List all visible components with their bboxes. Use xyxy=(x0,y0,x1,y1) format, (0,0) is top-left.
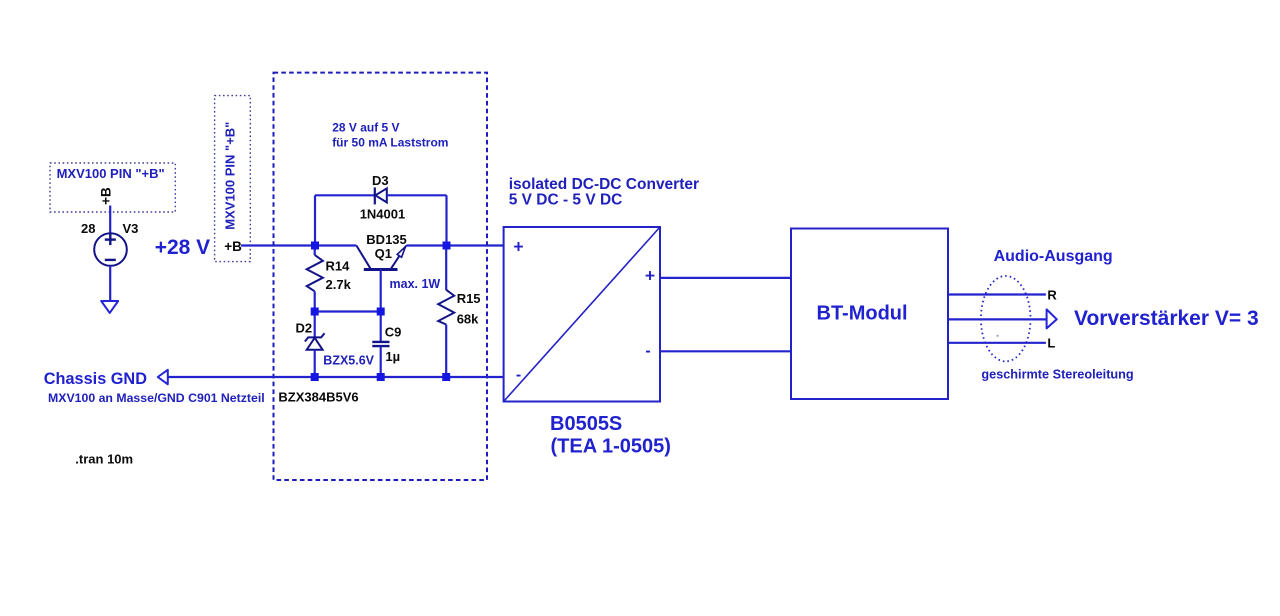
svg-text:R15: R15 xyxy=(457,291,481,306)
ground xyxy=(101,301,118,313)
svg-text:1N4001: 1N4001 xyxy=(360,207,406,222)
wire base lead xyxy=(380,270,382,312)
wire top loop right xyxy=(387,194,447,196)
junction node A xyxy=(311,242,319,250)
svg-text:+B: +B xyxy=(99,187,114,205)
wire DC-DC out - xyxy=(660,350,791,352)
svg-text:D2: D2 xyxy=(296,320,313,335)
svg-text:MXV100 PIN "+B": MXV100 PIN "+B" xyxy=(222,122,237,230)
svg-text:für 50 mA Laststrom: für 50 mA Laststrom xyxy=(332,135,448,149)
junction gnd-1 xyxy=(311,373,319,381)
junction node B xyxy=(443,242,451,250)
svg-text:Vorverstärker V= 3: Vorverstärker V= 3 xyxy=(1074,307,1259,330)
wire audio L xyxy=(948,342,1046,344)
diode D3 xyxy=(375,187,387,204)
resistor R15 xyxy=(438,290,454,325)
capacitor C9 xyxy=(372,342,389,346)
wire audio mid xyxy=(948,318,1047,320)
svg-text:+: + xyxy=(513,237,523,257)
svg-text:BD135: BD135 xyxy=(366,232,406,247)
svg-text:Q1: Q1 xyxy=(375,246,392,261)
wire top loop left xyxy=(315,194,375,196)
svg-text:MXV100 an Masse/GND C901 Netzt: MXV100 an Masse/GND C901 Netzteil xyxy=(48,391,265,405)
svg-text:BT-Modul: BT-Modul xyxy=(817,303,908,325)
svg-text:1µ: 1µ xyxy=(385,349,400,364)
svg-text:D3: D3 xyxy=(372,173,389,188)
transistor Q1 xyxy=(356,246,406,270)
wire C9 bottom lead xyxy=(380,346,382,377)
svg-text:max. 1W: max. 1W xyxy=(390,277,441,291)
BT-Modul box xyxy=(791,229,948,400)
svg-text:5 V DC - 5 V DC: 5 V DC - 5 V DC xyxy=(509,192,623,209)
svg-text:28 V auf 5 V: 28 V auf 5 V xyxy=(332,121,399,135)
svg-text:C9: C9 xyxy=(385,325,402,340)
wire R15 top lead xyxy=(445,246,447,291)
junction gnd-2 xyxy=(377,373,385,381)
stray dot xyxy=(996,335,998,337)
svg-text:isolated DC-DC Converter: isolated DC-DC Converter xyxy=(509,176,699,193)
wire emitter segment xyxy=(406,244,503,246)
wire D2 top lead xyxy=(314,312,316,338)
svg-text:-: - xyxy=(516,366,521,383)
wire +B to node xyxy=(241,244,315,246)
svg-text:R14: R14 xyxy=(326,259,351,274)
DC-DC converter U1 box xyxy=(504,227,660,402)
wire R15 bottom lead xyxy=(445,325,447,378)
junction gnd-3 xyxy=(442,373,450,381)
svg-text:geschirmte Stereoleitung: geschirmte Stereoleitung xyxy=(981,367,1133,381)
svg-text:L: L xyxy=(1047,336,1055,351)
wire mid horizontal xyxy=(315,310,381,312)
dashed regulator box xyxy=(274,73,488,480)
wire V3 top xyxy=(109,206,111,234)
svg-text:Audio-Ausgang: Audio-Ausgang xyxy=(994,248,1113,265)
junction node base-left xyxy=(311,308,319,316)
wire V3 bottom xyxy=(109,266,111,301)
wire R14 bottom lead xyxy=(314,291,316,311)
svg-text:BZX5.6V: BZX5.6V xyxy=(323,354,374,368)
svg-text:R: R xyxy=(1047,288,1057,303)
wire C9 top lead xyxy=(380,312,382,342)
chassis GND arrow xyxy=(158,370,168,385)
wire ground rail xyxy=(168,376,504,378)
svg-text:2.7k: 2.7k xyxy=(326,277,352,292)
svg-text:B0505S: B0505S xyxy=(550,413,622,435)
svg-text:(TEA 1-0505): (TEA 1-0505) xyxy=(551,435,671,457)
wire R14 top lead xyxy=(314,246,316,256)
resistor R14 xyxy=(307,255,323,291)
svg-text:68k: 68k xyxy=(457,312,479,327)
svg-text:V3: V3 xyxy=(123,221,139,236)
audio output arrow xyxy=(1047,309,1057,328)
junction node base xyxy=(377,308,385,316)
svg-text:28: 28 xyxy=(81,221,95,236)
svg-text:+B: +B xyxy=(224,239,242,254)
wire DC-DC out + xyxy=(660,277,791,279)
svg-text:.tran 10m: .tran 10m xyxy=(75,451,133,466)
svg-text:+: + xyxy=(645,265,655,285)
voltage source V3 xyxy=(94,233,127,266)
wire D2 bottom lead xyxy=(314,350,316,377)
svg-text:Chassis GND: Chassis GND xyxy=(44,370,147,388)
zener diode D2 xyxy=(305,333,325,349)
svg-text:MXV100 PIN "+B": MXV100 PIN "+B" xyxy=(57,166,165,181)
wire collector segment xyxy=(315,244,356,246)
shielded cable ellipse xyxy=(981,276,1031,361)
wire audio R xyxy=(948,293,1046,295)
svg-text:-: - xyxy=(645,343,650,360)
annotation box MXV100 PIN +B (horizontal) xyxy=(50,163,175,212)
wire top loop down xyxy=(445,195,447,245)
svg-text:+28 V: +28 V xyxy=(155,236,210,259)
svg-text:BZX384B5V6: BZX384B5V6 xyxy=(278,390,358,405)
annotation box MXV100 PIN +B (vertical) xyxy=(215,96,251,262)
wire node A up xyxy=(314,195,316,245)
